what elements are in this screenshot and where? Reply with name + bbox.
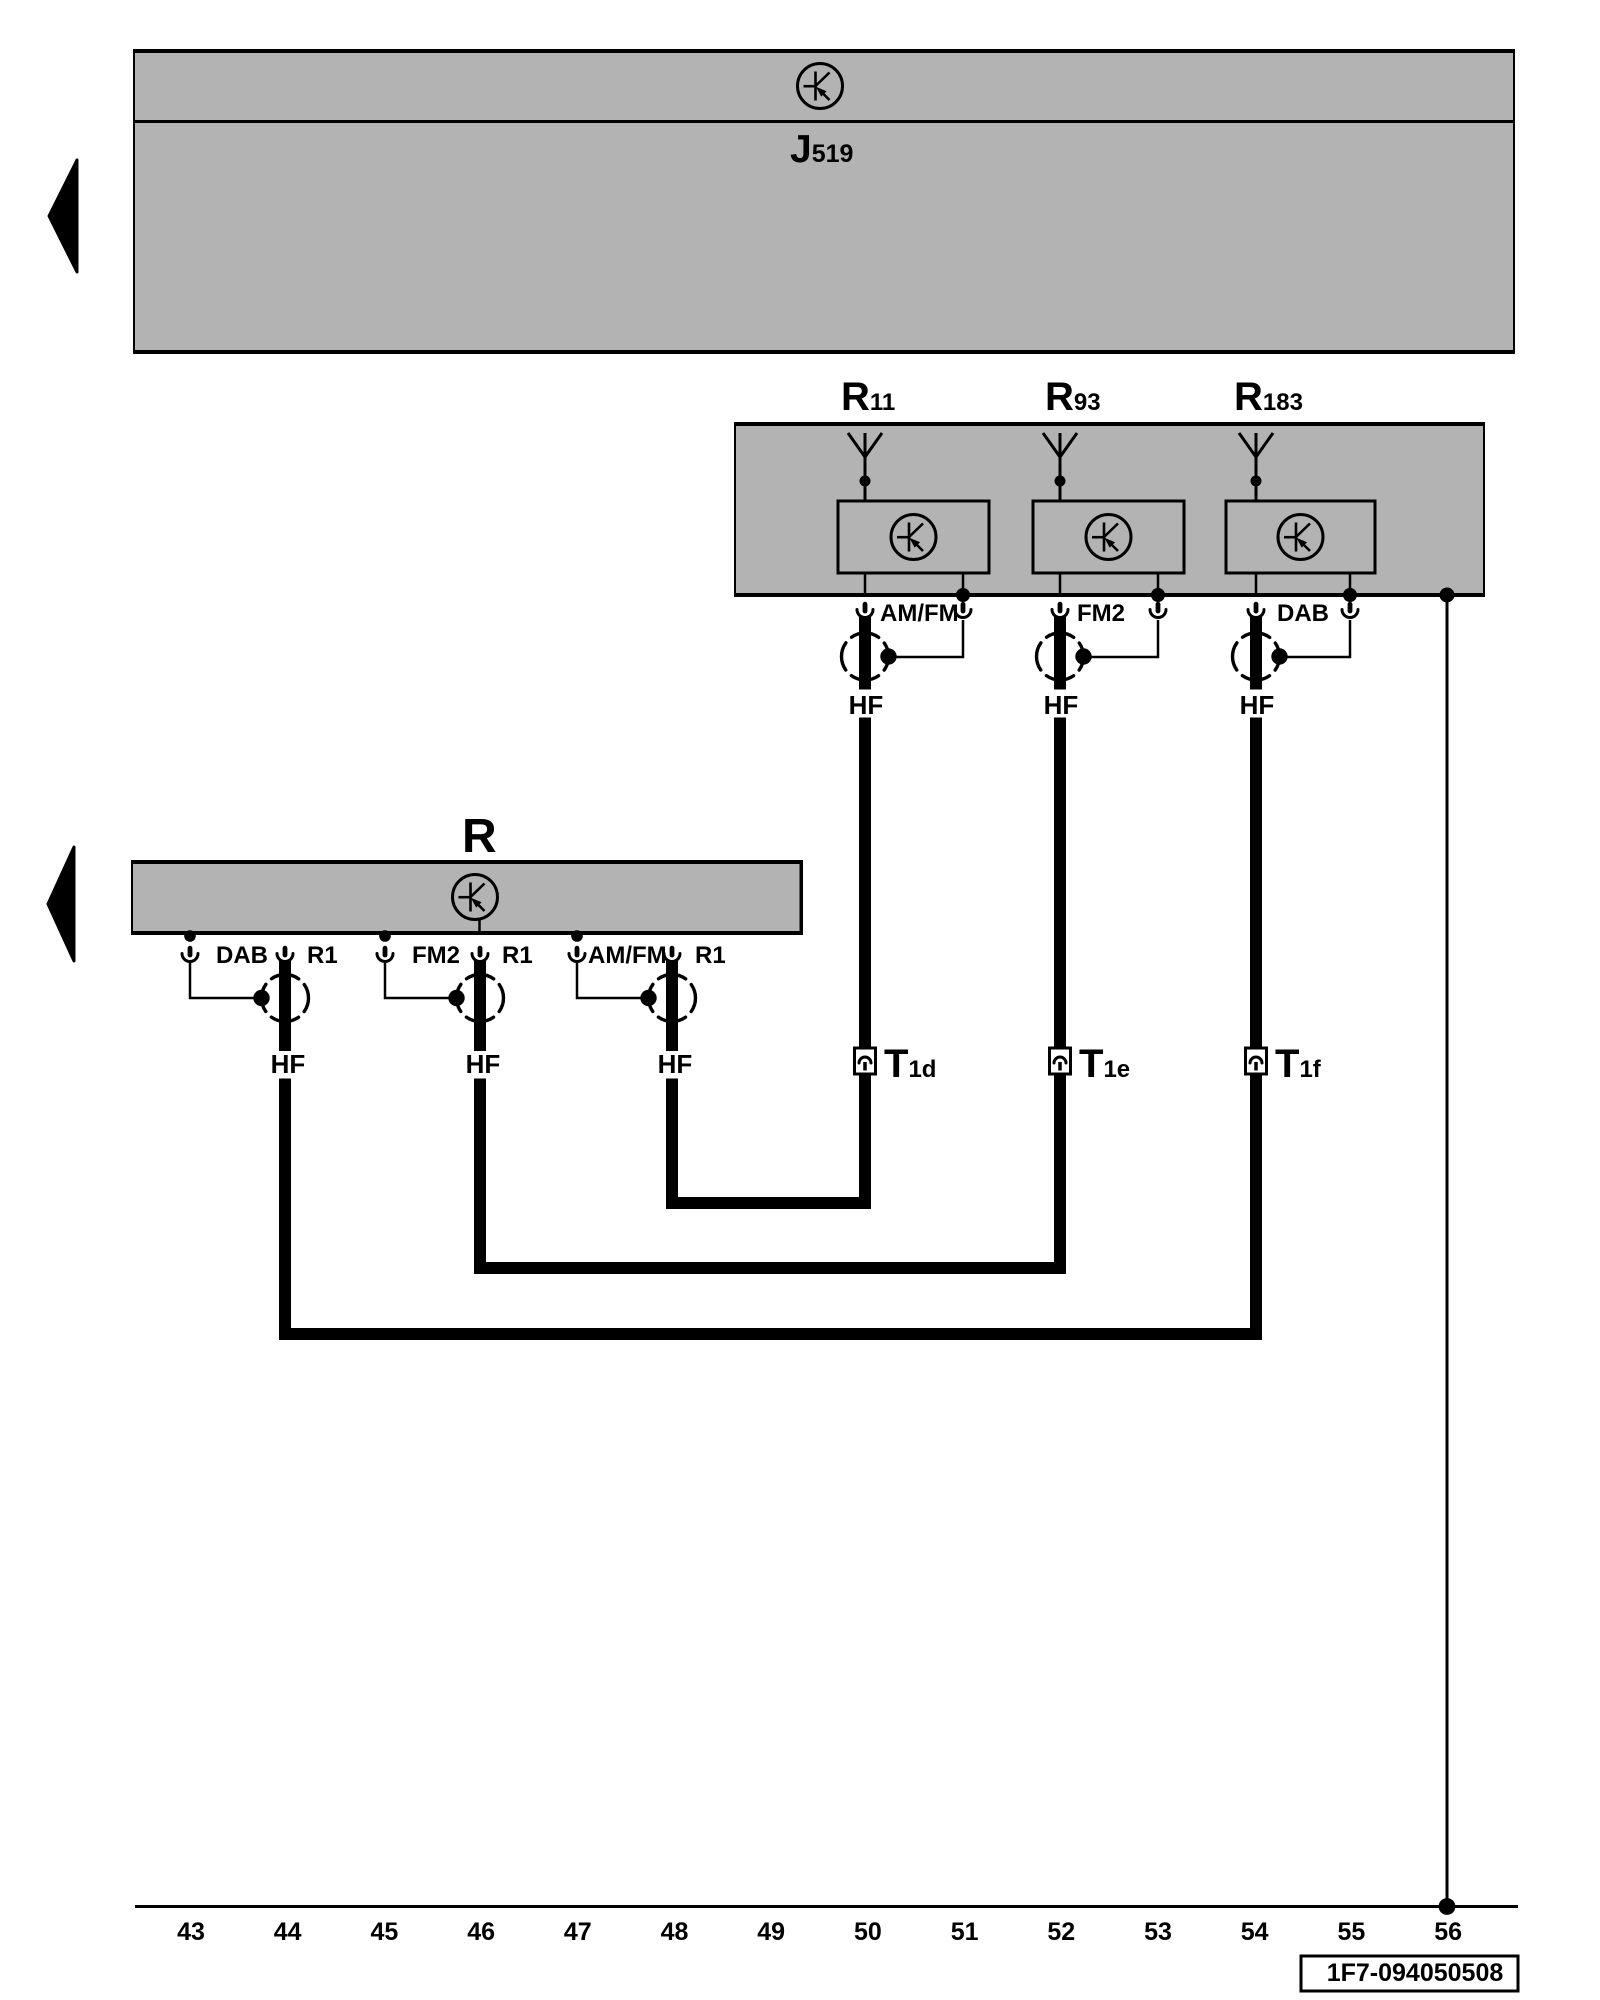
antenna module box R11/R93/R183 (734, 423, 1485, 596)
svg-text:45: 45 (370, 1918, 398, 1946)
coax wire AM/FM to radio (666, 960, 678, 1051)
antenna symbol R11 (848, 433, 882, 501)
wire R93 shield to edge (1157, 573, 1160, 595)
svg-text:HF: HF (271, 1049, 306, 1079)
svg-text:53: 53 (1144, 1918, 1172, 1946)
connector pin DAB output (1248, 604, 1264, 617)
svg-text:52: 52 (1047, 1918, 1075, 1946)
coax wire T1d upper segment (859, 616, 871, 690)
shield drain wire T1e (1084, 620, 1159, 657)
wire radio symbol to pin 46 (478, 919, 481, 935)
ground wire to terminal 56 (1446, 595, 1449, 1907)
connector pin AM/FM shield (955, 604, 971, 617)
shield drain wire AM/FM radio (577, 963, 649, 998)
svg-text:HF: HF (658, 1049, 693, 1079)
junction dot radio AM/FM shield (571, 930, 583, 942)
wire R93 output to edge (1059, 573, 1062, 595)
connector pin radio DAB signal (277, 948, 293, 961)
svg-text:HF: HF (1240, 690, 1275, 720)
radio R box (131, 861, 803, 934)
shield symbol on FM2 coax (448, 975, 503, 1022)
wire R11 output to edge (864, 573, 867, 595)
connector pin FM2 output (1052, 604, 1068, 617)
coax wire DAB to radio (279, 960, 291, 1051)
coax wire T1d main run (672, 718, 865, 1204)
connector pin radio FM2 signal (472, 948, 488, 961)
svg-text:R1: R1 (502, 942, 533, 969)
svg-text:R: R (462, 810, 497, 863)
coax wire T1e main run (480, 718, 1060, 1269)
shield symbol on T1f coax (1233, 633, 1288, 680)
connector pin radio FM2 shield (377, 948, 393, 961)
junction dot radio FM2 shield (379, 930, 391, 942)
radio symbol in R (453, 875, 498, 920)
junction dot pin 53 (1151, 588, 1165, 602)
svg-text:56: 56 (1434, 1918, 1462, 1946)
svg-text:AM/FM: AM/FM (880, 600, 959, 627)
svg-text:DAB: DAB (1277, 600, 1329, 627)
wire R183 output to edge (1255, 573, 1258, 595)
shield drain wire DAB radio (190, 963, 262, 998)
junction dot pin 55 (1343, 588, 1357, 602)
junction dot radio DAB shield (184, 930, 196, 942)
junction dot ground wire (1440, 588, 1455, 603)
svg-text:47: 47 (564, 1918, 592, 1946)
amplifier symbol R93 (1086, 515, 1131, 560)
svg-text:HF: HF (849, 690, 884, 720)
coax wire T1e upper segment (1054, 616, 1066, 690)
shield symbol on T1d coax (842, 633, 897, 680)
amplifier R11 inner box (838, 501, 989, 573)
connector pin radio AM/FM signal (664, 948, 680, 961)
shield symbol on T1e coax (1037, 633, 1092, 680)
svg-text:50: 50 (854, 1918, 882, 1946)
amplifier R183 inner box (1226, 501, 1375, 573)
svg-text:44: 44 (274, 1918, 302, 1946)
svg-text:HF: HF (1044, 690, 1079, 720)
connector pin FM2 shield (1150, 604, 1166, 617)
svg-text:1F7-094050508: 1F7-094050508 (1327, 1959, 1504, 1987)
junction dot pin 51 (956, 588, 970, 602)
svg-text:FM2: FM2 (412, 942, 460, 969)
shield drain wire T1f (1280, 620, 1351, 657)
connector T1d (855, 1048, 876, 1074)
svg-text:R1: R1 (307, 942, 338, 969)
antenna symbol R93 (1043, 433, 1077, 501)
svg-text:49: 49 (757, 1918, 785, 1946)
connector pin DAB shield (1342, 604, 1358, 617)
svg-text:43: 43 (177, 1918, 205, 1946)
current-track arrow upper left (49, 160, 77, 272)
svg-text:48: 48 (661, 1918, 689, 1946)
antenna symbol R183 (1239, 433, 1273, 501)
wire R183 shield to edge (1349, 573, 1352, 595)
amplifier symbol R183 (1278, 515, 1323, 560)
wire R11 shield to edge (962, 573, 965, 595)
svg-text:51: 51 (951, 1918, 979, 1946)
amplifier R93 inner box (1033, 501, 1184, 573)
diagram code box (1301, 1956, 1518, 1991)
amplifier symbol R11 (891, 515, 936, 560)
svg-text:DAB: DAB (216, 942, 268, 969)
connector pin radio DAB shield (182, 948, 198, 961)
current-track arrow mid left (48, 847, 74, 961)
terminal rail (135, 1905, 1518, 1908)
svg-text:FM2: FM2 (1077, 600, 1125, 627)
svg-text:R1: R1 (695, 942, 726, 969)
connector pin AM/FM output (857, 604, 873, 617)
svg-text:HF: HF (466, 1049, 501, 1079)
shield symbol on DAB coax (253, 975, 308, 1022)
svg-text:AM/FM: AM/FM (588, 942, 667, 969)
connector T1e (1050, 1048, 1071, 1074)
connector T1f (1246, 1048, 1267, 1074)
shield symbol on AM/FM coax (640, 975, 695, 1022)
svg-text:54: 54 (1241, 1918, 1269, 1946)
connector pin radio AM/FM shield (569, 948, 585, 961)
svg-text:46: 46 (467, 1918, 495, 1946)
junction dot terminal 56 (1439, 1898, 1456, 1915)
coax wire T1f main run (285, 718, 1256, 1335)
shield drain wire FM2 radio (385, 963, 457, 998)
shield drain wire T1d (889, 620, 964, 657)
onboard supply symbol in J519 (798, 64, 843, 109)
control module J519 box (133, 50, 1515, 353)
coax wire FM2 to radio (474, 960, 486, 1051)
coax wire T1f upper segment (1250, 616, 1262, 690)
svg-text:55: 55 (1337, 1918, 1365, 1946)
